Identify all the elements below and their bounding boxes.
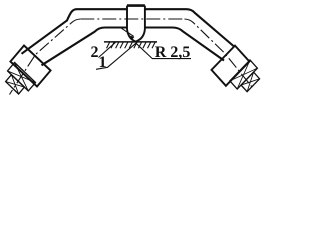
connector step block — [230, 60, 258, 89]
knurl cross — [8, 63, 36, 91]
knurl cross — [241, 72, 260, 92]
left connector body block — [10, 46, 50, 87]
wire rod bottom outline left — [42, 28, 128, 66]
surface line — [104, 41, 157, 43]
centerline horizontal — [80, 18, 184, 20]
knurl cross — [6, 75, 25, 94]
label R 2,5 — [155, 46, 190, 59]
wire rod top outline left — [22, 9, 128, 54]
connector step block — [6, 75, 25, 94]
connector step block — [8, 63, 36, 91]
indenter bit top edge — [127, 4, 145, 7]
knurl cross — [230, 60, 258, 89]
centerline right arm — [185, 19, 253, 88]
wire rod top outline right — [145, 9, 234, 46]
wire rod bottom outline right — [145, 28, 224, 61]
right connector body block — [212, 46, 250, 86]
indenter bit body with radius tip — [127, 6, 145, 42]
leader label 1 — [96, 42, 137, 69]
centerline left arm — [10, 19, 81, 95]
leader label 2 — [99, 42, 116, 57]
leader line R2,5 — [136, 43, 192, 59]
surface hatching — [107, 42, 156, 48]
leader arrow to tip radius — [122, 28, 134, 36]
connector step block — [241, 72, 260, 92]
